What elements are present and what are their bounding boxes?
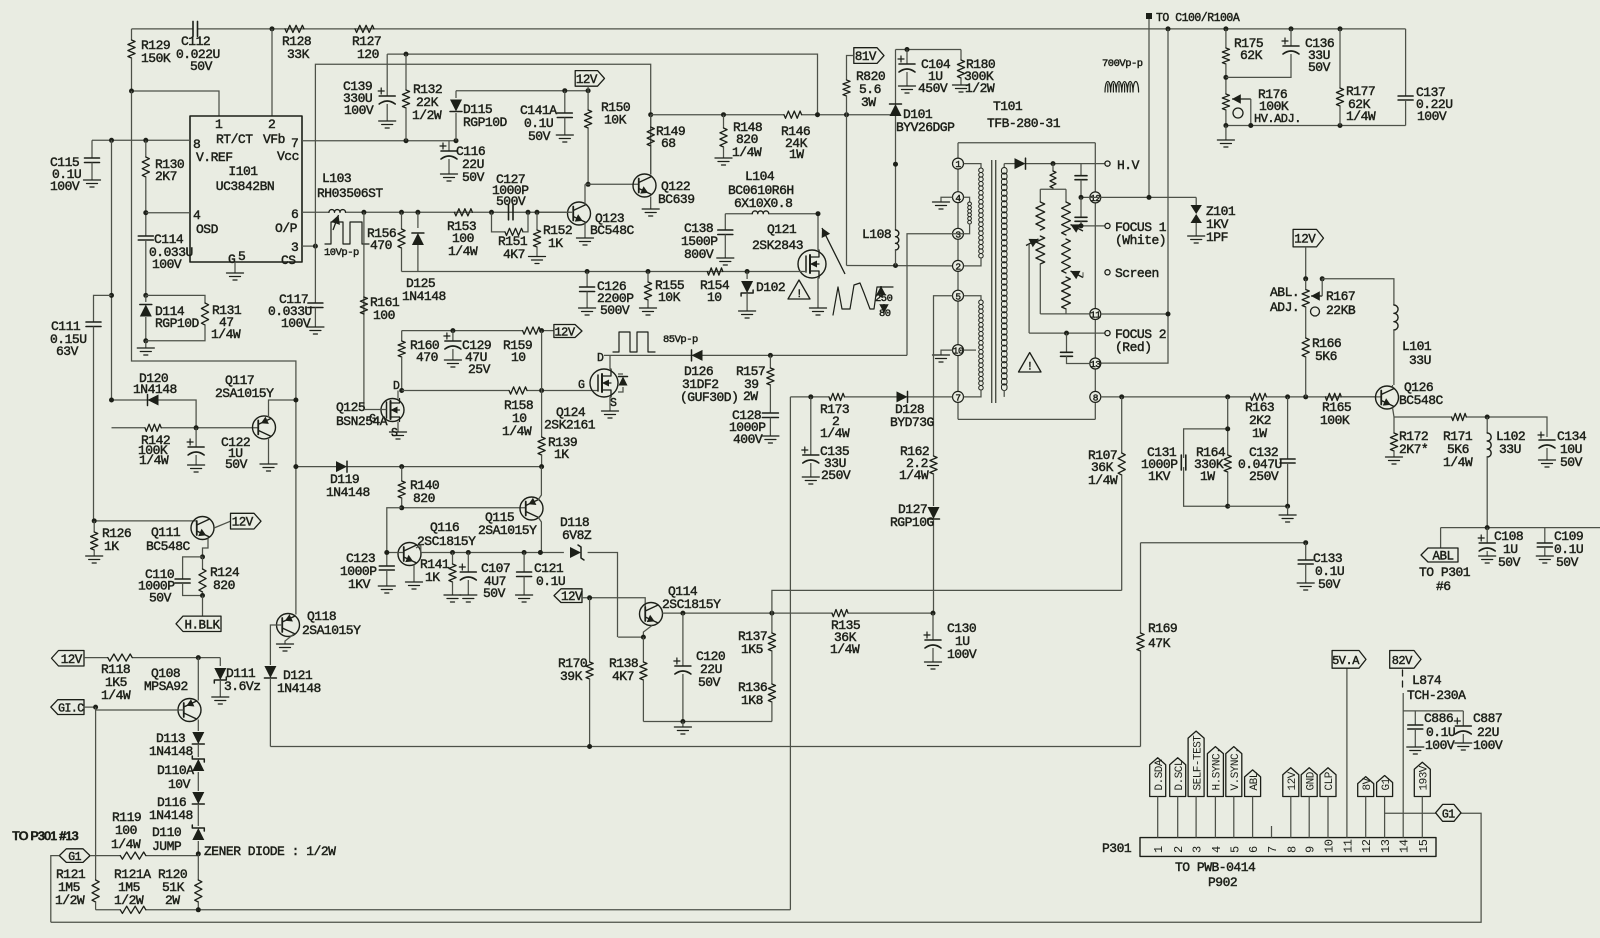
P301 flag GND pin9 — [1301, 768, 1317, 797]
svg-text:2W: 2W — [165, 893, 180, 908]
svg-text:BYD73G: BYD73G — [890, 415, 934, 430]
svg-text:D110A: D110A — [157, 763, 194, 778]
svg-text:1/4W: 1/4W — [211, 327, 241, 342]
node C120 top — [680, 611, 685, 616]
node Q122 col node — [648, 112, 653, 117]
wire GIC drop — [95, 707, 97, 879]
capacitor C139 — [386, 54, 388, 96]
svg-text:!: ! — [796, 289, 802, 301]
squarewave 85Vp-p — [613, 332, 655, 352]
flag 12V (top) — [575, 71, 604, 87]
svg-text:1K8: 1K8 — [741, 693, 763, 708]
primary winding lower — [964, 296, 982, 300]
drain waveform — [833, 283, 893, 315]
node bot wiper — [1248, 123, 1253, 128]
wiper arrow FOCUS1 — [1071, 225, 1084, 232]
svg-text:GI.C: GI.C — [58, 703, 84, 716]
svg-text:1/4W: 1/4W — [732, 145, 762, 160]
svg-text:L104: L104 — [745, 169, 775, 184]
node Q125 drain — [399, 388, 404, 393]
primary winding upper — [964, 164, 982, 168]
svg-text:Q111: Q111 — [151, 525, 181, 540]
wire D118 line — [416, 545, 421, 553]
svg-text:100: 100 — [373, 308, 395, 323]
svg-text:470: 470 — [370, 238, 392, 253]
svg-text:RT/CT: RT/CT — [216, 132, 253, 147]
svg-text:1/4W: 1/4W — [820, 426, 850, 441]
flag 12V (Q124 gate) — [554, 325, 582, 338]
node R171-L102 — [1485, 415, 1490, 420]
svg-text:50V: 50V — [1556, 555, 1579, 570]
wire R118 line — [84, 657, 108, 659]
diode D126 31DF2 — [692, 350, 703, 361]
svg-text:100V: 100V — [947, 647, 977, 662]
wire GI.C line — [84, 707, 184, 710]
svg-text:15: 15 — [1417, 839, 1431, 853]
svg-text:0.1U: 0.1U — [536, 574, 565, 589]
wire Q122 base — [585, 183, 639, 185]
svg-text:100V: 100V — [1417, 109, 1447, 124]
svg-text:G: G — [228, 252, 235, 267]
svg-text:L874: L874 — [1412, 673, 1442, 688]
svg-text:12V: 12V — [1294, 233, 1316, 247]
svg-text:1PF: 1PF — [1206, 230, 1228, 245]
node C127 right — [526, 210, 531, 215]
svg-text:8V: 8V — [1362, 777, 1374, 790]
svg-text:TCH-230A: TCH-230A — [1407, 688, 1466, 703]
resistor R180 — [960, 50, 962, 61]
svg-text:L101: L101 — [1402, 339, 1432, 354]
Screen terminal — [1105, 270, 1110, 275]
svg-text:1K: 1K — [104, 539, 119, 554]
ground Q117 collector — [268, 438, 270, 464]
wire pin12 line — [1081, 196, 1196, 198]
wire D120 line — [112, 399, 142, 401]
svg-text:1/2W: 1/2W — [412, 108, 442, 123]
svg-text:R167: R167 — [1326, 289, 1355, 304]
ground Q123 emitter — [584, 223, 586, 239]
svg-text:2SA1015Y: 2SA1015Y — [215, 386, 274, 401]
resistor R154 (series) — [707, 268, 723, 275]
wire pin13 G1hex — [1385, 812, 1436, 814]
svg-text:68: 68 — [661, 136, 676, 151]
svg-text:BC548C: BC548C — [1399, 393, 1444, 408]
HV terminal — [1105, 161, 1110, 166]
capacitor C127 (series) — [509, 205, 514, 220]
wire Q115 emitter — [538, 467, 541, 500]
wire Q115 collector — [538, 517, 541, 553]
capacitor C107 — [467, 553, 469, 573]
svg-text:Q125: Q125 — [336, 400, 365, 415]
svg-text:RH03506ST: RH03506ST — [317, 186, 383, 201]
transistor Q117 2SA1015Y — [253, 416, 276, 439]
P301 flag 12V pin8 — [1283, 768, 1299, 797]
svg-text:D: D — [597, 352, 604, 365]
wire D119 line — [296, 466, 336, 468]
svg-text:82V: 82V — [1392, 654, 1413, 668]
node D114 top junction — [143, 293, 148, 298]
body diode Q124 — [618, 373, 623, 375]
wire C123 branch — [387, 508, 402, 566]
node Vcc-D115 — [454, 138, 459, 143]
svg-text:100V: 100V — [344, 103, 374, 118]
svg-text:5: 5 — [238, 249, 245, 264]
svg-text:12V: 12V — [61, 653, 83, 667]
capacitor C109 — [1544, 528, 1546, 543]
svg-text:1/2W: 1/2W — [114, 893, 144, 908]
wire Z101 — [1195, 197, 1197, 205]
node VREF-R130 — [143, 138, 148, 143]
wire R142 line — [112, 427, 146, 429]
svg-text:D102: D102 — [756, 280, 785, 295]
svg-text:11: 11 — [1090, 310, 1101, 321]
capacitor C117 — [302, 245, 315, 247]
flag GI.C — [51, 700, 84, 715]
svg-text:39K: 39K — [560, 669, 583, 684]
node toprail-1168 — [1166, 26, 1171, 31]
wire Vfb 54 rail — [387, 54, 817, 115]
xfmr pin 13 circle — [1090, 358, 1101, 369]
node R167 top — [1303, 276, 1308, 281]
node D126-R157 — [768, 353, 773, 358]
svg-text:10V: 10V — [168, 777, 191, 792]
node D119-R140 — [399, 464, 404, 469]
diode D125 1N4148 — [417, 212, 419, 228]
capacitor C123 — [379, 566, 394, 570]
node R156 top — [399, 210, 404, 215]
wire R176 bottom — [1226, 125, 1406, 127]
resistor R128 (series in top rail) — [285, 25, 304, 32]
node L104-drain — [816, 211, 821, 216]
svg-text:250: 250 — [875, 293, 893, 305]
node O/P-R161 — [361, 210, 366, 215]
ground Q118 emitter — [285, 634, 294, 644]
diode D116 1N4148 — [192, 792, 204, 804]
resistor R118 (series) — [108, 654, 132, 661]
node D118-R141 — [450, 550, 455, 555]
svg-text:2W: 2W — [743, 389, 758, 404]
capacitor C104 — [906, 50, 908, 65]
node Q123-Q122 tie — [586, 182, 591, 187]
wire Q118 base — [270, 625, 282, 665]
svg-text:H.V: H.V — [1117, 158, 1140, 173]
wire Q111 emitter — [203, 539, 209, 557]
svg-text:470: 470 — [416, 350, 438, 365]
svg-text:G: G — [578, 379, 585, 392]
wire ABL out rail — [1441, 527, 1600, 529]
flag 81V — [854, 48, 884, 64]
wire Q114 col out — [662, 612, 832, 614]
inductor L108 — [895, 164, 897, 230]
focus chain A — [1039, 189, 1041, 202]
resistor R160 — [401, 331, 403, 341]
xfmr pin 1 circle — [953, 158, 964, 169]
transistor Q111 BC548C — [191, 517, 214, 540]
resistor R170 — [589, 598, 591, 662]
node C141A — [562, 88, 567, 93]
wire G1 line — [90, 855, 120, 857]
svg-text:14: 14 — [1398, 839, 1412, 853]
P301 flag G1 pin13 — [1377, 776, 1393, 797]
xfmr right rail — [1094, 143, 1096, 420]
svg-text:L108: L108 — [862, 227, 891, 242]
svg-text:50V: 50V — [1560, 455, 1583, 470]
svg-text:12V: 12V — [561, 590, 583, 604]
resistor R146 (series) — [784, 111, 802, 118]
svg-text:#6: #6 — [1436, 579, 1451, 594]
svg-text:12V: 12V — [1287, 771, 1299, 790]
hex flag G1 (right) — [1436, 804, 1461, 821]
node R137 top — [769, 611, 774, 616]
capacitor C129 — [450, 328, 455, 333]
diode D127 RGP10G — [928, 507, 940, 519]
wire R139 drop — [541, 331, 543, 437]
node pin12-toc100 — [1147, 195, 1152, 200]
transistor Q123 BC548C — [568, 202, 591, 225]
svg-text:1/4W: 1/4W — [899, 468, 929, 483]
wire Vcc rail — [302, 140, 456, 142]
resistor R162 — [930, 456, 937, 474]
node R820 bottom — [844, 112, 849, 117]
svg-text:Q121: Q121 — [767, 222, 797, 237]
svg-text:MPSA92: MPSA92 — [144, 679, 188, 694]
wire em gnd rail — [643, 721, 772, 723]
resistor R142 (series) — [145, 424, 161, 431]
wire 115 rail — [651, 114, 784, 116]
svg-text:2SK2843: 2SK2843 — [752, 238, 803, 253]
wire 82V drop — [1402, 693, 1404, 838]
node R175-R176 — [1223, 75, 1228, 80]
ground xfmr pin10 — [941, 350, 953, 355]
xfmr pin 12 circle — [1090, 192, 1101, 203]
svg-text:Q116: Q116 — [430, 520, 459, 535]
svg-text:193V: 193V — [1419, 765, 1431, 790]
svg-text:2SA1015Y: 2SA1015Y — [302, 623, 361, 638]
svg-text:10K: 10K — [604, 113, 627, 128]
svg-text:33K: 33K — [287, 47, 310, 62]
svg-text:Vcc: Vcc — [277, 149, 299, 164]
svg-text:VFb: VFb — [263, 132, 285, 147]
transistor Q114 2SC1815Y — [640, 603, 663, 626]
resistor bleeder top — [1052, 164, 1054, 171]
wire R165-Q126 — [1341, 396, 1381, 398]
resistor R161 (on drop) — [360, 297, 367, 314]
svg-text:100V: 100V — [281, 316, 311, 331]
svg-text:120: 120 — [357, 47, 379, 62]
svg-text:BYV26DGP: BYV26DGP — [896, 120, 955, 135]
wire O/P line — [302, 211, 329, 213]
node R142-C122 — [194, 425, 199, 430]
wire CS feedback riser — [315, 64, 650, 246]
svg-text:47K: 47K — [1148, 636, 1171, 651]
svg-text:1N4148: 1N4148 — [326, 485, 370, 500]
svg-text:(Red): (Red) — [1115, 340, 1152, 355]
svg-text:RGP10D: RGP10D — [463, 115, 508, 130]
svg-text:SELF-TEST: SELF-TEST — [1192, 735, 1204, 791]
svg-text:1/4W: 1/4W — [1346, 109, 1376, 124]
node R152 top — [535, 210, 540, 215]
svg-text:V.SYNC.: V.SYNC. — [1230, 748, 1242, 791]
svg-text:12V: 12V — [576, 73, 598, 87]
resistor R141 — [452, 553, 454, 565]
flag ABL TO P301 #6 — [1440, 528, 1442, 548]
svg-text:1N4148: 1N4148 — [277, 681, 321, 696]
svg-text:TFB-280-31: TFB-280-31 — [987, 116, 1061, 131]
svg-text:ZENER DIODE : 1/2W: ZENER DIODE : 1/2W — [204, 844, 336, 859]
svg-text:BSN254A: BSN254A — [336, 414, 388, 429]
svg-text:2SK2161: 2SK2161 — [544, 418, 596, 433]
node OSD junction — [143, 210, 148, 215]
node R124 top — [200, 554, 205, 559]
wire C111 branch — [111, 140, 113, 400]
resistor R124 — [202, 557, 204, 569]
node bot R176 — [1223, 123, 1228, 128]
resistor R166 — [1305, 307, 1307, 338]
resistor R138 — [642, 637, 644, 662]
wire pin1 RT/CT — [132, 91, 220, 116]
capacitor C134 — [1539, 440, 1555, 448]
svg-text:7: 7 — [955, 393, 960, 404]
node HV-R divider — [1051, 161, 1056, 166]
focus chain B — [1065, 189, 1067, 202]
svg-text:50V: 50V — [1498, 555, 1521, 570]
wire 12V-Q114 base — [582, 598, 645, 607]
svg-text:150K: 150K — [141, 51, 171, 66]
wire Q114 emitter — [643, 626, 652, 638]
svg-text:6X10X0.8: 6X10X0.8 — [734, 196, 792, 211]
svg-text:RGP10G: RGP10G — [890, 515, 934, 530]
capacitor C121 — [523, 553, 525, 573]
svg-text:100: 100 — [115, 823, 137, 838]
svg-text:80: 80 — [879, 308, 891, 320]
wire 1168 drop — [1167, 29, 1169, 314]
zener D118 6V8Z — [570, 547, 581, 558]
xfmr pin 4 circle — [953, 192, 964, 203]
wire R121A line — [96, 909, 121, 911]
svg-text:1N4148: 1N4148 — [149, 808, 193, 823]
svg-text:4: 4 — [193, 208, 201, 223]
node pin11-1168 — [1166, 312, 1171, 317]
flag G1 (left) — [59, 849, 90, 863]
node D125 top — [415, 210, 420, 215]
svg-text:4K7: 4K7 — [612, 669, 634, 684]
HV rectifier diode — [1015, 158, 1026, 169]
potentiometer R176 HV.ADJ — [1222, 94, 1229, 110]
wire Q126 collector — [1392, 385, 1394, 388]
svg-text:6V8Z: 6V8Z — [562, 528, 592, 543]
P301 pin7 stub — [1271, 826, 1273, 838]
svg-text:250V: 250V — [1249, 469, 1279, 484]
wire Q125 gate — [364, 409, 387, 411]
svg-text:1K: 1K — [554, 447, 569, 462]
node toprail R177 — [1338, 26, 1343, 31]
svg-text:D.SCL: D.SCL — [1174, 760, 1186, 791]
divider top bar — [1040, 188, 1066, 190]
flag H.BLK — [202, 596, 204, 617]
svg-text:81V: 81V — [855, 50, 877, 64]
svg-text:D110: D110 — [152, 825, 181, 840]
node C127 left — [489, 210, 494, 215]
svg-text:1/4W: 1/4W — [101, 688, 131, 703]
resistor R137 — [771, 613, 773, 633]
svg-text:100V: 100V — [152, 257, 182, 272]
wire Q123 collector — [584, 184, 586, 204]
svg-text:700Vp-p: 700Vp-p — [1102, 58, 1143, 70]
capacitor C133 — [1305, 543, 1307, 560]
node R120 bottom — [196, 907, 201, 912]
svg-text:CS: CS — [281, 253, 296, 268]
node C111 tap — [109, 293, 114, 298]
inductor L102 33U — [1486, 417, 1488, 433]
svg-text:H.SYNC.: H.SYNC. — [1212, 748, 1224, 791]
mosfet Q125 BSN254A — [381, 399, 404, 422]
svg-text:6: 6 — [291, 207, 298, 222]
mosfet Q124 2SK2161 — [590, 369, 618, 397]
xfmr pin 10 circle — [953, 345, 964, 356]
svg-text:1KV: 1KV — [1148, 469, 1171, 484]
svg-text:3: 3 — [1191, 846, 1205, 853]
node R124 bottom — [200, 593, 205, 598]
node wiper top — [1320, 276, 1325, 281]
transistor Q115 2SA1015Y — [520, 497, 543, 520]
svg-text:4: 4 — [1210, 846, 1224, 853]
squarewave 10Vp-p — [333, 215, 339, 230]
svg-text:62K: 62K — [1240, 48, 1263, 63]
svg-text:C886: C886 — [1424, 711, 1453, 726]
ground D114 — [145, 341, 147, 348]
svg-text:2SC1815Y: 2SC1815Y — [662, 597, 721, 612]
svg-text:10: 10 — [1323, 839, 1337, 853]
xfmr pin 5 circle — [953, 290, 964, 301]
flag 12V (ABL) — [1293, 229, 1323, 247]
resistor R159 (series) — [523, 327, 541, 334]
svg-text:TO PWB-0414: TO PWB-0414 — [1175, 860, 1256, 875]
diode D128 BYD73G — [897, 391, 908, 402]
svg-text:85Vp-p: 85Vp-p — [663, 334, 698, 346]
svg-text:2: 2 — [1172, 846, 1186, 853]
wire pin11 line — [1040, 313, 1090, 315]
capacitor C137 — [1405, 29, 1407, 96]
svg-text:BC548C: BC548C — [590, 223, 635, 238]
xfmr pin 7 circle — [953, 391, 964, 402]
svg-text:1: 1 — [215, 117, 223, 132]
diode D115 RGP10D — [455, 113, 457, 141]
capacitor C887 — [1462, 711, 1464, 726]
inductor L103 RH03506ST — [329, 210, 346, 213]
node pin12-HVcap — [1079, 195, 1084, 200]
svg-text:(White): (White) — [1115, 233, 1166, 248]
ground Q116 emitter — [413, 565, 415, 583]
diode D113 1N4148 — [197, 729, 199, 731]
svg-text:Q118: Q118 — [307, 609, 336, 624]
wire pin4 OSD — [146, 212, 190, 214]
svg-text:G: G — [369, 413, 376, 426]
wire TOC100 drop — [1148, 19, 1150, 197]
svg-text:50V: 50V — [1318, 577, 1341, 592]
spark gap Z101 — [1191, 205, 1202, 214]
xfmr core — [991, 160, 993, 403]
svg-text:1N4148: 1N4148 — [149, 744, 193, 759]
svg-text:4: 4 — [955, 193, 961, 204]
wire CS row — [402, 271, 798, 273]
svg-text:50V: 50V — [483, 586, 506, 601]
capacitor C112 (series in top rail) — [193, 21, 198, 36]
svg-text:1N4148: 1N4148 — [133, 382, 177, 397]
svg-text:50V: 50V — [1308, 60, 1331, 75]
resistor R126 — [91, 532, 98, 550]
resistor R140 — [401, 467, 403, 481]
svg-text:5K6: 5K6 — [1315, 349, 1337, 364]
